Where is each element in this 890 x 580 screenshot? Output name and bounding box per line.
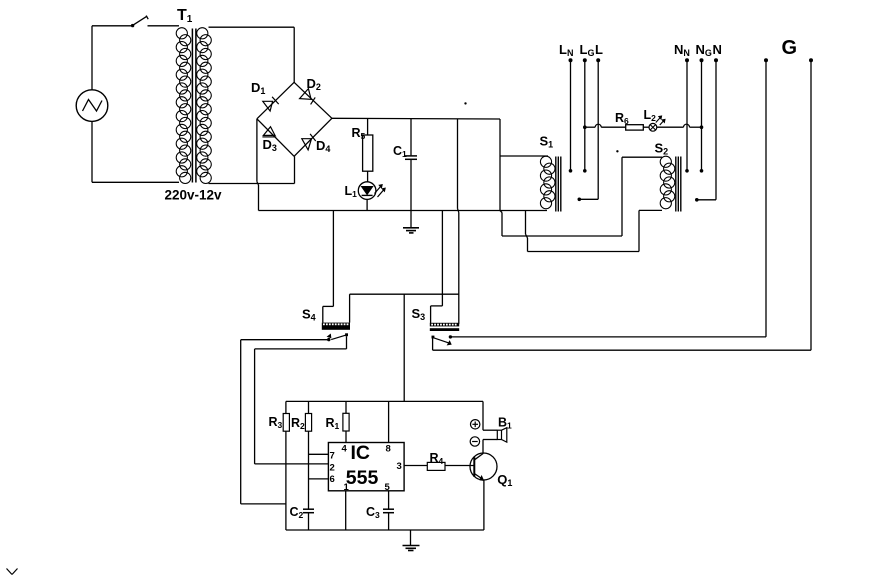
wire bbox=[482, 440, 484, 454]
resistor R3 bbox=[283, 414, 289, 432]
mark bbox=[7, 569, 18, 575]
terminal NG bbox=[700, 58, 704, 172]
wire bbox=[308, 513, 310, 530]
wire bbox=[458, 119, 459, 324]
wire bbox=[366, 199, 368, 210]
wire bbox=[500, 155, 548, 157]
pin 6 bbox=[330, 474, 335, 485]
transformer T1 primary winding bbox=[176, 28, 191, 184]
wire bbox=[285, 401, 287, 530]
wire bbox=[345, 431, 347, 443]
terminal NN bbox=[685, 58, 689, 172]
wire bbox=[367, 171, 369, 182]
wire bbox=[410, 159, 412, 228]
wire bbox=[323, 211, 334, 323]
ic U1 555 bbox=[328, 443, 404, 491]
label IC bbox=[351, 442, 371, 464]
ac source V1 bbox=[76, 90, 108, 122]
label R4 bbox=[430, 451, 444, 466]
terminal N bbox=[695, 58, 718, 201]
wire bbox=[345, 401, 347, 413]
speaker B1 bbox=[470, 420, 507, 447]
mark bbox=[616, 150, 618, 152]
pin 7 bbox=[330, 451, 335, 462]
label LG bbox=[580, 42, 595, 58]
label D4 bbox=[316, 138, 330, 154]
label N bbox=[713, 42, 722, 57]
wire bbox=[349, 294, 351, 322]
wire bbox=[403, 294, 405, 401]
svg-text:7: 7 bbox=[330, 451, 335, 462]
mark bbox=[464, 102, 466, 104]
label Q1 bbox=[497, 472, 512, 488]
relay switch S4 bbox=[327, 333, 348, 341]
terminal G bbox=[764, 58, 813, 62]
capacitor C2 bbox=[303, 509, 314, 513]
diode D2 bbox=[300, 89, 316, 105]
svg-text:IC: IC bbox=[351, 442, 371, 464]
transistor Q1 bbox=[470, 453, 497, 480]
wire bus +V bbox=[332, 117, 500, 120]
wire bbox=[286, 400, 483, 402]
relay coil S2 bbox=[660, 156, 681, 211]
svg-text:G: G bbox=[782, 37, 798, 59]
wire bbox=[308, 401, 310, 509]
svg-text:6: 6 bbox=[330, 474, 335, 485]
pin 2 bbox=[330, 462, 335, 473]
label R5 bbox=[352, 126, 366, 141]
label B1 bbox=[498, 416, 512, 431]
wire bbox=[450, 60, 766, 337]
wire bbox=[483, 401, 497, 430]
pin 5 bbox=[385, 482, 391, 493]
relay switch S3 bbox=[432, 335, 453, 345]
led L1 bbox=[358, 182, 385, 200]
label S3 bbox=[412, 306, 426, 322]
label L2 bbox=[644, 108, 657, 123]
wire bbox=[309, 453, 329, 455]
label D3 bbox=[263, 137, 277, 153]
label 220v-12v bbox=[165, 188, 223, 203]
wire rail 0V bbox=[259, 210, 548, 212]
label D2 bbox=[307, 76, 321, 92]
wire bbox=[255, 336, 347, 464]
label NN bbox=[674, 42, 690, 58]
terminal L bbox=[578, 58, 601, 201]
label S4 bbox=[302, 307, 316, 323]
resistor R4 bbox=[427, 462, 445, 470]
label R2 bbox=[291, 416, 305, 431]
label G bbox=[782, 37, 798, 59]
wire bbox=[257, 82, 332, 156]
diode D3 bbox=[262, 127, 276, 137]
wire H3 bbox=[350, 293, 459, 295]
label L1 bbox=[345, 184, 358, 199]
svg-text:4: 4 bbox=[342, 444, 348, 455]
pin 3 bbox=[397, 461, 402, 472]
resistor R2 bbox=[305, 414, 311, 432]
label NG bbox=[696, 42, 712, 58]
diode D4 bbox=[302, 134, 316, 150]
label C1 bbox=[393, 144, 407, 159]
wire bbox=[388, 513, 390, 530]
svg-text:220v-12v: 220v-12v bbox=[165, 188, 223, 203]
wire bbox=[404, 465, 427, 467]
label 555 bbox=[346, 467, 379, 489]
wire bbox=[483, 480, 485, 530]
label R6 bbox=[615, 111, 629, 126]
wire bbox=[257, 119, 259, 211]
wire bbox=[148, 25, 180, 27]
svg-text:1: 1 bbox=[344, 482, 350, 493]
pin 1 bbox=[344, 482, 350, 493]
wire bbox=[445, 465, 474, 467]
resistor R1 bbox=[343, 413, 349, 431]
switch bbox=[131, 16, 148, 28]
transformer T1 secondary winding bbox=[197, 28, 212, 184]
terminal LG bbox=[583, 58, 587, 172]
wire bbox=[657, 124, 704, 129]
wire bbox=[483, 439, 497, 441]
wire bbox=[410, 530, 412, 546]
ground bbox=[403, 546, 420, 551]
pin 4 bbox=[342, 444, 348, 455]
transformer T1 core bbox=[192, 29, 196, 183]
wire bbox=[526, 210, 663, 251]
wire bbox=[410, 119, 412, 155]
wire bbox=[209, 27, 295, 82]
label D1 bbox=[251, 80, 265, 96]
svg-text:3: 3 bbox=[397, 461, 402, 472]
wire bbox=[388, 401, 390, 442]
label C3 bbox=[366, 505, 380, 520]
svg-text:8: 8 bbox=[386, 444, 391, 455]
capacitor C3 bbox=[383, 509, 394, 513]
wire bbox=[433, 60, 811, 350]
svg-text:N: N bbox=[713, 42, 722, 57]
label T1 bbox=[177, 7, 193, 25]
label C2 bbox=[290, 505, 304, 520]
wire bbox=[345, 491, 347, 530]
wire bbox=[286, 529, 484, 531]
resistor R5 bbox=[363, 135, 373, 171]
relay coil S3 bbox=[430, 323, 459, 331]
diode D1 bbox=[263, 97, 279, 111]
wire bbox=[367, 119, 369, 135]
terminal LN bbox=[569, 58, 573, 172]
relay coil S1 bbox=[540, 156, 560, 211]
ground bbox=[403, 228, 419, 233]
label R1 bbox=[326, 416, 340, 431]
label S2 bbox=[655, 141, 669, 157]
svg-text:2: 2 bbox=[330, 462, 335, 473]
wire bbox=[499, 119, 501, 211]
wire bbox=[583, 124, 626, 129]
svg-text:L: L bbox=[595, 42, 603, 57]
svg-text:555: 555 bbox=[346, 467, 379, 489]
relay coil S4 bbox=[322, 323, 350, 330]
label R3 bbox=[269, 415, 283, 430]
svg-text:5: 5 bbox=[385, 482, 391, 493]
wire bbox=[500, 157, 662, 236]
wire bbox=[643, 126, 649, 128]
led L2 bbox=[649, 116, 665, 131]
wire bbox=[92, 26, 179, 183]
label LN bbox=[559, 42, 573, 58]
capacitor C1 bbox=[405, 156, 417, 159]
wire bbox=[309, 478, 329, 480]
wire bbox=[388, 491, 390, 509]
wire bbox=[209, 156, 295, 183]
wire bbox=[241, 340, 329, 504]
label S1 bbox=[540, 134, 554, 150]
wire bbox=[431, 211, 443, 324]
pin 8 bbox=[386, 444, 391, 455]
resistor R6 bbox=[626, 125, 644, 130]
label L bbox=[595, 42, 603, 57]
